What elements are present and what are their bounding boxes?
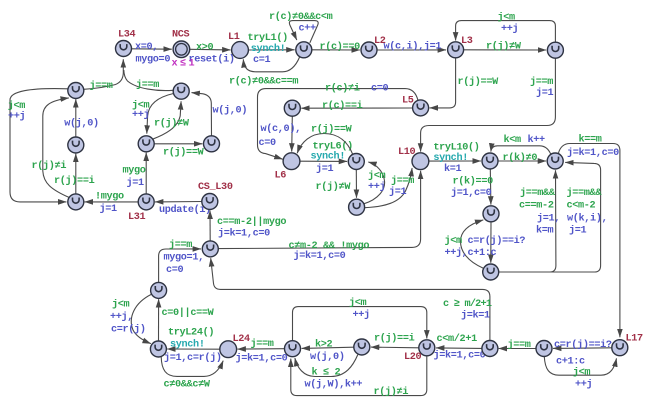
svg-text:c=r(j)==i?: c=r(j)==i? — [554, 339, 612, 351]
svg-text:c=0: c=0 — [166, 265, 184, 276]
svg-text:j<m: j<m — [498, 12, 516, 24]
location A — [296, 42, 312, 58]
svg-text:c=0: c=0 — [259, 138, 277, 149]
svg-text:j==m: j==m — [136, 79, 159, 91]
svg-text:mygo=1,: mygo=1, — [164, 253, 204, 264]
edge U2->T (lower arc) — [295, 355, 362, 391]
svg-text:k ≤ 2: k ≤ 2 — [312, 367, 341, 379]
edge R->P — [159, 239, 204, 282]
svg-text:c ≥ m/2+1: c ≥ m/2+1 — [443, 298, 492, 310]
svg-text:c=r(j): c=r(j) — [111, 324, 146, 336]
svg-text:w(j,W),k++: w(j,W),k++ — [305, 379, 363, 391]
svg-text:x=0,: x=0, — [135, 42, 158, 53]
location P — [202, 241, 218, 257]
edge B->L3 (top loop) — [456, 12, 556, 42]
edge K->J (arc) — [491, 134, 551, 154]
edge L3->L5 — [430, 58, 499, 108]
edge R->S (arc) — [110, 294, 152, 343]
svg-text:r(k)==0: r(k)==0 — [453, 176, 494, 188]
svg-text:j=k=1,c=0: j=k=1,c=0 — [218, 228, 270, 240]
location U2 — [354, 339, 370, 355]
svg-text:c=0: c=0 — [371, 84, 389, 95]
svg-text:c++: c++ — [299, 24, 317, 35]
location L6 — [275, 153, 300, 182]
svg-text:r(c)≠0&&c<m: r(c)≠0&&c<m — [269, 11, 333, 23]
location L31 — [128, 194, 154, 223]
edge W->V — [499, 339, 536, 351]
svg-text:r(c)==0: r(c)==0 — [320, 41, 361, 53]
svg-text:L3: L3 — [461, 36, 473, 47]
location L1 — [228, 32, 248, 58]
svg-text:L17: L17 — [626, 334, 644, 345]
svg-text:c=0||c==W: c=0||c==W — [162, 307, 215, 319]
svg-text:j==m: j==m — [530, 76, 553, 88]
svg-text:j=k=1,c=0: j=k=1,c=0 — [567, 147, 619, 159]
svg-text:j=k=1,c=0: j=k=1,c=0 — [236, 353, 288, 365]
svg-text:w(j,0): w(j,0) — [64, 118, 99, 130]
svg-text:r(j)==i: r(j)==i — [374, 333, 415, 345]
edge I->N — [316, 170, 357, 198]
edge NCS->L1 — [189, 43, 235, 66]
edge L20->T (bottom loop) — [291, 356, 427, 398]
svg-text:c=r(j)==i?: c=r(j)==i? — [468, 235, 526, 247]
svg-text:c<m/2+1: c<m/2+1 — [437, 333, 478, 345]
svg-text:j==m: j==m — [169, 239, 192, 251]
edge N->I (arc) — [364, 162, 386, 204]
edge C->L (outer loop) — [8, 89, 68, 202]
edge P->L10 — [218, 171, 420, 262]
svg-text:L34: L34 — [118, 30, 136, 41]
svg-text:k>2: k>2 — [315, 339, 333, 351]
svg-text:c==m-2: c==m-2 — [519, 201, 554, 212]
edge L24->S — [164, 327, 222, 365]
svg-text:r(j)≠i: r(j)≠i — [32, 160, 67, 172]
edge K->L17 — [558, 134, 620, 338]
svg-text:tryL10(): tryL10() — [433, 142, 479, 154]
edge F->D — [152, 101, 190, 139]
svg-text:j==m&&: j==m&& — [567, 187, 603, 199]
svg-text:r(j)≠i: r(j)≠i — [374, 386, 409, 398]
svg-text:j<m: j<m — [349, 297, 367, 309]
edge L->E — [54, 154, 95, 194]
svg-text:c=1: c=1 — [253, 55, 271, 66]
edge L31->F — [123, 153, 147, 194]
svg-text:j=1,c=r(j): j=1,c=r(j) — [164, 352, 222, 364]
location J — [482, 153, 498, 169]
svg-text:synch!: synch! — [251, 43, 286, 55]
svg-text:synch!: synch! — [433, 152, 468, 164]
location D — [173, 83, 189, 99]
edge L34->NCS — [132, 42, 172, 66]
svg-text:!mygo: !mygo — [95, 192, 124, 203]
svg-text:j=1,c=0: j=1,c=0 — [451, 187, 492, 199]
location Q — [483, 264, 499, 280]
svg-text:L1: L1 — [228, 32, 240, 43]
location R — [151, 282, 167, 298]
edge T->L20 (top loop) — [293, 297, 427, 341]
edge B->L10 — [421, 58, 556, 151]
location G — [204, 136, 220, 152]
location L24 — [220, 334, 250, 358]
svg-text:++j,: ++j, — [110, 311, 133, 323]
svg-text:j<m: j<m — [8, 100, 26, 112]
edge L6->I (synch) — [300, 141, 353, 176]
svg-text:k==m: k==m — [579, 134, 602, 146]
svg-text:tryL24(): tryL24() — [168, 327, 214, 339]
svg-text:j=1,: j=1, — [537, 213, 560, 225]
edge J->O — [451, 169, 493, 205]
svg-text:synch!: synch! — [170, 339, 205, 351]
svg-text:++j: ++j — [575, 378, 592, 390]
svg-text:c+1:c: c+1:c — [468, 248, 497, 259]
edge L3->B — [464, 41, 546, 53]
edge F->G — [154, 144, 204, 159]
location L34 — [116, 30, 136, 57]
edge N->L10 — [365, 168, 415, 208]
svg-text:x>0: x>0 — [196, 43, 214, 54]
svg-text:r(j)≠W: r(j)≠W — [486, 41, 522, 53]
location E — [68, 137, 84, 153]
svg-text:j<m: j<m — [368, 170, 386, 182]
svg-text:r(j)≠W: r(j)≠W — [154, 118, 190, 130]
svg-text:j=1: j=1 — [389, 186, 407, 198]
svg-text:++j: ++j — [353, 309, 370, 321]
svg-text:r(j)==W: r(j)==W — [163, 147, 205, 159]
edge L2->L3 — [377, 41, 446, 53]
edge L31->L — [85, 192, 139, 216]
edge O->Q — [490, 222, 492, 263]
edge Q->O (arc) — [445, 220, 526, 268]
location CS_L30 — [198, 182, 233, 210]
svg-text:j=1: j=1 — [100, 203, 118, 215]
svg-text:mygo: mygo — [123, 166, 146, 177]
svg-text:tryL1(): tryL1() — [248, 32, 288, 44]
edge C->L34 — [84, 59, 124, 92]
svg-text:w(c,0),: w(c,0), — [261, 123, 301, 135]
location L5 — [402, 96, 429, 116]
svg-text:L20: L20 — [404, 352, 422, 363]
edge A->L1 (return arc) — [229, 57, 300, 88]
location L10 — [398, 147, 429, 170]
edge U2->T (upper) — [302, 339, 354, 364]
edge I->L6 (arc) — [297, 124, 353, 155]
edge E->C — [64, 99, 99, 137]
edge A->L2 — [312, 41, 360, 53]
location N — [349, 199, 365, 215]
edge W->L17 (bottom arc) — [544, 357, 616, 391]
edge D->L34 — [124, 70, 174, 91]
svg-text:L31: L31 — [128, 212, 146, 223]
location H — [284, 100, 300, 116]
edge V->P (long path) — [211, 258, 492, 340]
svg-text:j=1: j=1 — [127, 177, 145, 189]
svg-text:j<m: j<m — [112, 299, 130, 311]
edge L17->W — [553, 339, 612, 368]
svg-text:j==m: j==m — [251, 338, 274, 350]
location F — [138, 136, 154, 152]
svg-text:c<m-2: c<m-2 — [567, 201, 596, 212]
svg-text:r(k)≠0: r(k)≠0 — [503, 152, 538, 164]
svg-text:L2: L2 — [374, 36, 386, 47]
svg-text:j=k=1: j=k=1 — [461, 310, 490, 322]
svg-text:NCS: NCS — [172, 30, 190, 41]
location B — [547, 42, 563, 58]
edge J->K — [498, 152, 546, 164]
edge H->L6 — [259, 116, 301, 151]
svg-text:synch!: synch! — [311, 151, 346, 163]
svg-text:++j: ++j — [501, 23, 518, 35]
svg-text:x≤1: x≤1 — [172, 59, 198, 70]
location C — [68, 83, 84, 99]
svg-text:j=k=1,c=0: j=k=1,c=0 — [434, 350, 486, 362]
svg-text:k<m: k<m — [504, 134, 522, 146]
edge L20->U2 — [371, 333, 419, 348]
location L20 — [404, 340, 435, 363]
location T — [285, 341, 301, 357]
svg-text:r(c)≠0&&c==m: r(c)≠0&&c==m — [229, 76, 298, 88]
svg-text:k=1: k=1 — [444, 163, 462, 175]
location S — [150, 341, 166, 357]
svg-text:++j: ++j — [132, 109, 149, 121]
svg-text:k=m: k=m — [536, 225, 554, 237]
location W — [536, 341, 552, 357]
svg-text:j=1: j=1 — [536, 87, 554, 99]
svg-text:r(j)==W: r(j)==W — [311, 124, 353, 136]
svg-text:r(j)≠W: r(j)≠W — [316, 181, 352, 193]
edge S->L24 (arc) — [161, 357, 223, 391]
svg-text:j=1: j=1 — [316, 163, 334, 175]
svg-text:++j: ++j — [368, 181, 385, 193]
location O — [483, 206, 499, 222]
location K — [547, 153, 563, 169]
edge G->D — [192, 93, 248, 136]
edge P->CS_L30 — [210, 211, 286, 241]
edge T->L24 — [236, 338, 288, 365]
location L — [68, 194, 84, 210]
svg-text:j==m: j==m — [391, 175, 414, 187]
svg-text:j<m: j<m — [573, 366, 591, 378]
svg-text:j==m: j==m — [508, 339, 531, 351]
edge L5->L6 — [258, 83, 419, 160]
svg-text:j<m: j<m — [445, 235, 463, 247]
svg-text:mygo=0: mygo=0 — [136, 55, 171, 66]
edge Q->K (right path) — [499, 162, 607, 272]
svg-text:j=1: j=1 — [569, 225, 587, 237]
location I — [348, 154, 364, 170]
edge Q->K (middle path) — [499, 170, 560, 272]
self-loop A (triangle) — [269, 11, 333, 43]
location L17 — [612, 334, 643, 356]
edge L1->A — [248, 32, 295, 66]
svg-text:w(c,i),j=1: w(c,i),j=1 — [384, 41, 442, 53]
svg-text:w(k,i),: w(k,i), — [567, 213, 607, 225]
svg-text:L5: L5 — [402, 96, 414, 107]
svg-text:w(j,0): w(j,0) — [213, 105, 248, 117]
svg-text:++j,: ++j, — [445, 247, 468, 259]
edge CS_L30->L31 — [155, 202, 211, 217]
location NCS (initial) — [172, 30, 198, 70]
svg-text:j==m: j==m — [90, 80, 113, 92]
svg-text:r(j)==i: r(j)==i — [54, 175, 95, 187]
svg-text:w(j,0): w(j,0) — [310, 351, 345, 363]
svg-text:k++: k++ — [528, 134, 546, 146]
svg-text:j==m&&: j==m&& — [520, 187, 556, 199]
svg-text:L10: L10 — [398, 147, 416, 158]
svg-text:r(j)==W: r(j)==W — [458, 76, 500, 88]
svg-text:r(c)==i: r(c)==i — [322, 100, 363, 112]
svg-text:++j: ++j — [8, 111, 25, 123]
svg-text:CS_L30: CS_L30 — [198, 182, 233, 193]
edge L5->H — [301, 100, 412, 112]
svg-text:L6: L6 — [275, 171, 287, 182]
location L2 — [361, 36, 386, 58]
svg-text:r(c)≠i: r(c)≠i — [325, 83, 360, 95]
location V — [482, 341, 498, 357]
svg-text:c≠0&&c≠W: c≠0&&c≠W — [164, 380, 211, 391]
svg-text:c==m-2||mygo: c==m-2||mygo — [217, 216, 286, 228]
svg-text:j=k=1,c=0: j=k=1,c=0 — [294, 250, 346, 262]
edge S->R — [159, 299, 215, 341]
edge D->F — [132, 94, 174, 134]
edge V->L20 — [434, 333, 486, 362]
edge L10->J — [429, 142, 481, 176]
svg-text:c+1:c: c+1:c — [556, 357, 585, 368]
edge L->C (inner arc) — [32, 98, 70, 197]
svg-text:L24: L24 — [233, 334, 251, 345]
location L3 — [448, 36, 473, 58]
